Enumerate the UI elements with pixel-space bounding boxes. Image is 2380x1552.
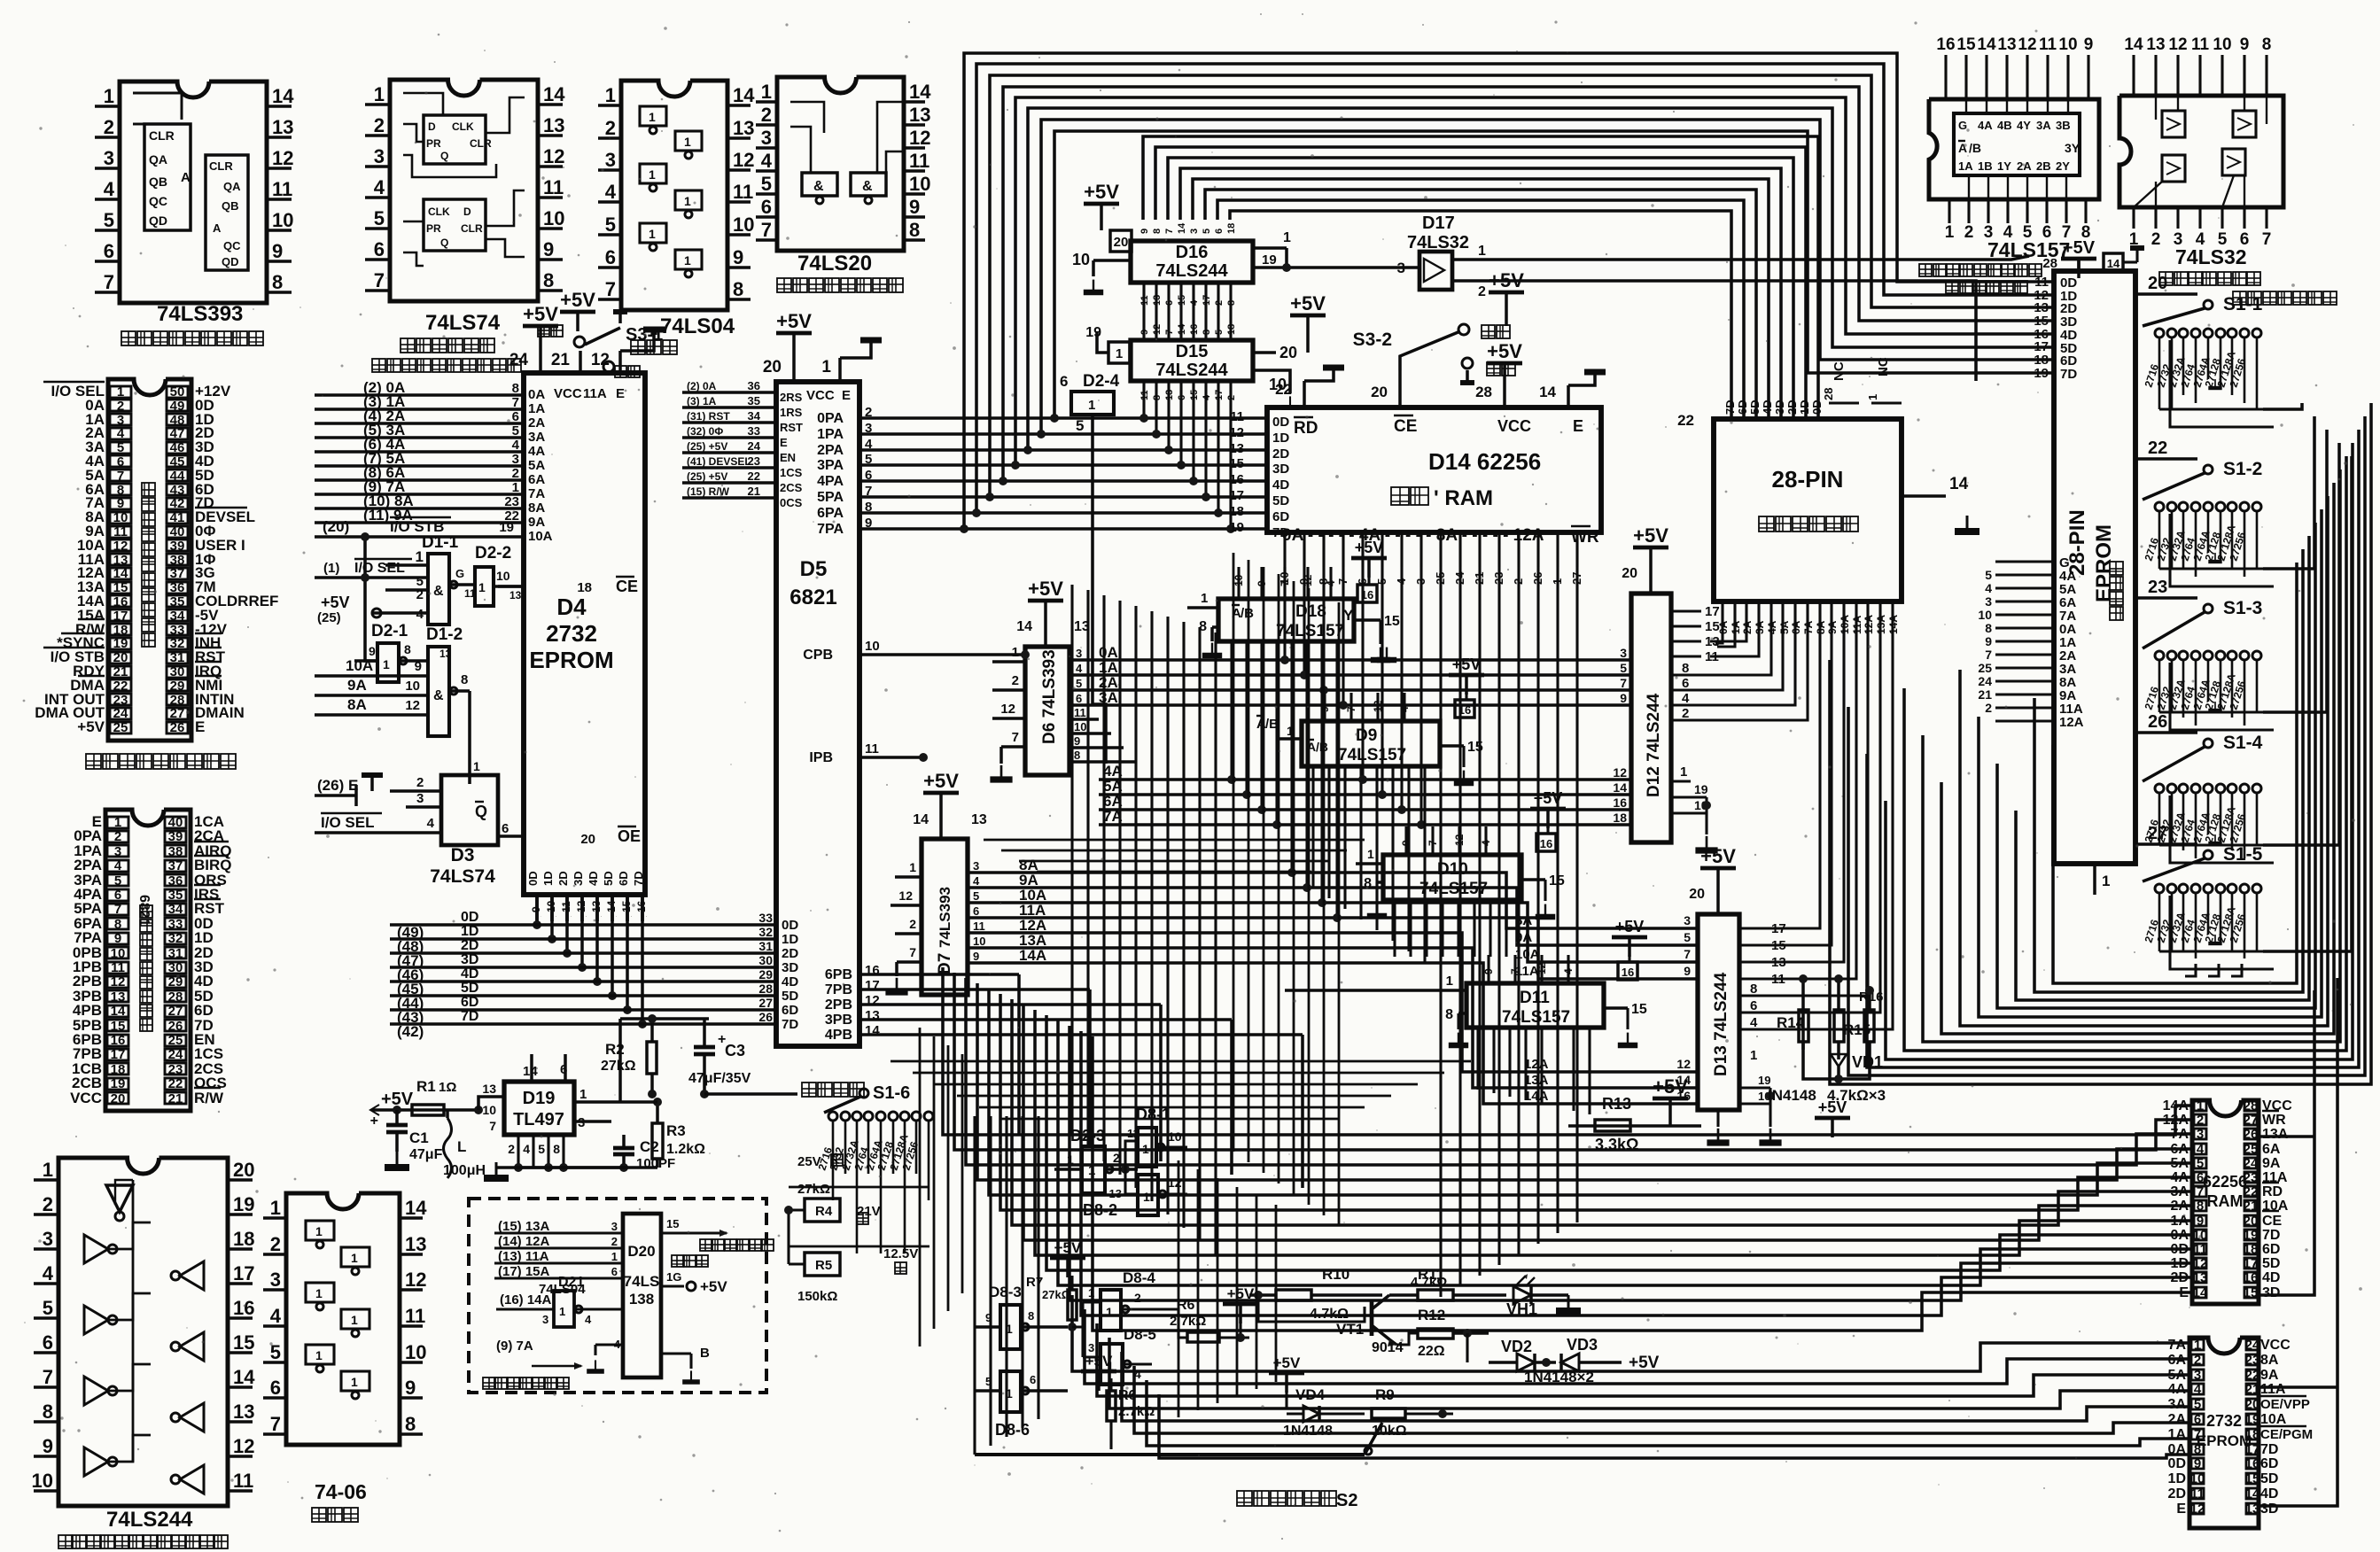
svg-text:100μH: 100μH xyxy=(443,1163,486,1178)
svg-text:24: 24 xyxy=(168,1047,183,1062)
svg-text:11: 11 xyxy=(1074,706,1086,719)
svg-text:8: 8 xyxy=(2262,35,2272,54)
D5 pin20 VCC +5V xyxy=(792,353,796,382)
svg-text:4: 4 xyxy=(761,150,773,172)
svg-text:14: 14 xyxy=(1177,323,1187,335)
wire CPB to D6 pin1 xyxy=(1021,650,1030,659)
svg-text:1CS: 1CS xyxy=(780,466,803,479)
svg-text:4D: 4D xyxy=(1272,477,1289,493)
svg-text:1: 1 xyxy=(1750,1048,1757,1063)
IC D7 74LS393 (vertical) xyxy=(922,839,968,995)
svg-text:2: 2 xyxy=(909,917,916,931)
svg-text:12: 12 xyxy=(1000,702,1015,717)
svg-text:5: 5 xyxy=(512,423,519,438)
resistor R6 2.7k vertical xyxy=(1081,1370,1116,1374)
svg-text:6PB: 6PB xyxy=(825,967,852,982)
svg-text:S1-3: S1-3 xyxy=(2223,598,2262,618)
svg-text:2732: 2732 xyxy=(2206,1412,2242,1430)
vertical drops from D14 bottom pins xyxy=(1283,567,1286,660)
svg-text:19: 19 xyxy=(1694,782,1708,796)
svg-text:9: 9 xyxy=(1620,691,1627,705)
programming socket address pins xyxy=(1995,560,2054,563)
svg-text:Q: Q xyxy=(440,237,448,249)
svg-text:35: 35 xyxy=(748,394,760,407)
svg-text:9: 9 xyxy=(114,931,121,946)
emulation socket bottom address pins 0A-14A xyxy=(1721,601,1723,631)
svg-text:18: 18 xyxy=(2244,1242,2259,1257)
IC D13 74LS244 (vertical) xyxy=(1698,914,1739,1110)
connector J2 6821 PIA (40-pin) xyxy=(105,810,191,1111)
svg-text:12: 12 xyxy=(2193,1256,2208,1271)
svg-text:1: 1 xyxy=(684,135,691,149)
svg-text:R7: R7 xyxy=(1026,1275,1043,1290)
S1-6 collector rails xyxy=(789,1186,929,1189)
svg-text:9A: 9A xyxy=(2260,1368,2279,1383)
svg-text:(2) 0A: (2) 0A xyxy=(687,380,717,392)
wire D17.1 right with arrow xyxy=(1489,256,2029,260)
svg-text:1: 1 xyxy=(1088,1163,1095,1178)
svg-text:8: 8 xyxy=(405,1413,416,1435)
svg-text:0D: 0D xyxy=(526,871,540,886)
svg-text:10: 10 xyxy=(2058,35,2077,54)
IC D5 6821 PIA (box) xyxy=(776,382,859,1046)
svg-text:2D: 2D xyxy=(461,938,478,953)
svg-text:+5V: +5V xyxy=(1085,1353,1113,1370)
svg-text:6: 6 xyxy=(502,821,509,836)
svg-text:8: 8 xyxy=(1028,1309,1034,1323)
staircase 8A-11A to D13 left xyxy=(1152,873,1698,928)
svg-text:23: 23 xyxy=(504,494,519,509)
svg-text:33: 33 xyxy=(758,911,773,925)
svg-text:6: 6 xyxy=(1164,300,1175,306)
svg-text:11: 11 xyxy=(2193,1242,2207,1257)
svg-text:13: 13 xyxy=(543,114,564,136)
row (20) I/O STB pin 19 10A xyxy=(315,535,524,539)
D11 bottom pins xyxy=(1476,1028,1479,1057)
svg-text:13A: 13A xyxy=(1524,1073,1549,1088)
svg-text:10: 10 xyxy=(1074,720,1086,733)
svg-text:74LS244: 74LS244 xyxy=(1155,361,1228,380)
svg-text:2: 2 xyxy=(43,1193,53,1215)
svg-text:138: 138 xyxy=(629,1291,654,1308)
staircase D18 bottom to 4A-7A rows xyxy=(1099,670,1232,780)
svg-text:16: 16 xyxy=(1613,795,1627,810)
svg-text:20: 20 xyxy=(2244,1214,2259,1229)
svg-text:(9) 7A: (9) 7A xyxy=(496,1339,533,1354)
svg-text:4: 4 xyxy=(1189,299,1200,306)
svg-text:18: 18 xyxy=(1226,223,1237,234)
caption: only slot 7 has this signal xyxy=(86,754,236,769)
svg-text:4: 4 xyxy=(416,607,424,622)
svg-text:24: 24 xyxy=(2244,1156,2259,1171)
svg-text:12: 12 xyxy=(1229,425,1244,440)
svg-text:8: 8 xyxy=(1152,395,1163,400)
svg-text:7D: 7D xyxy=(2260,1442,2278,1457)
svg-text:D6 74LS393: D6 74LS393 xyxy=(1040,649,1059,744)
svg-text:6D: 6D xyxy=(2262,1242,2280,1257)
svg-text:74LS32: 74LS32 xyxy=(2175,245,2247,268)
svg-text:6D: 6D xyxy=(461,995,478,1010)
svg-text:2D: 2D xyxy=(2168,1486,2186,1502)
svg-text:16: 16 xyxy=(1229,472,1244,487)
svg-text:E: E xyxy=(1573,417,1583,435)
switch S1-2 EPROM select xyxy=(2135,457,2197,461)
svg-text:10: 10 xyxy=(543,207,564,229)
svg-text:11: 11 xyxy=(272,178,292,200)
svg-text:+5V: +5V xyxy=(1084,181,1119,203)
svg-text:5: 5 xyxy=(1684,930,1691,944)
D11 top pins xyxy=(1487,955,1489,983)
svg-text:E: E xyxy=(2176,1502,2186,1517)
svg-text:1N4148×2: 1N4148×2 xyxy=(1524,1369,1594,1385)
svg-text:(3) 1A: (3) 1A xyxy=(687,395,717,407)
svg-text:1: 1 xyxy=(1116,346,1123,361)
svg-text:3: 3 xyxy=(104,147,114,169)
svg-text:(16) 14A: (16) 14A xyxy=(500,1292,552,1308)
S1 group bus lines below xyxy=(2158,338,2161,409)
svg-text:29: 29 xyxy=(168,974,183,989)
svg-text:12: 12 xyxy=(111,974,126,989)
svg-text:12A: 12A xyxy=(2059,715,2084,730)
svg-text:3D: 3D xyxy=(1773,400,1786,415)
svg-text:7PA: 7PA xyxy=(817,522,844,537)
svg-text:24: 24 xyxy=(113,706,128,721)
svg-text:2.7kΩ: 2.7kΩ xyxy=(1170,1314,1206,1329)
bus group1: D5 PA bus to programming-socket data loop (8 lines) xyxy=(964,53,2054,529)
svg-text:12: 12 xyxy=(591,351,610,369)
svg-text:G: G xyxy=(455,567,464,580)
svg-text:45: 45 xyxy=(170,454,185,469)
svg-text:13: 13 xyxy=(971,812,987,827)
svg-text:7: 7 xyxy=(104,271,114,293)
wire IPB to D7 xyxy=(922,757,924,877)
svg-text:2D: 2D xyxy=(782,946,798,961)
svg-text:4: 4 xyxy=(973,874,980,888)
svg-text:15: 15 xyxy=(2244,1285,2259,1300)
svg-text:19: 19 xyxy=(499,520,514,535)
svg-text:35: 35 xyxy=(168,888,183,903)
svg-text:11A: 11A xyxy=(583,386,607,401)
svg-text:5D: 5D xyxy=(1272,493,1289,508)
left drop from D5 0D rows to bottom bundle xyxy=(859,924,1046,926)
svg-text:13: 13 xyxy=(405,1233,426,1255)
D4 pin 24 VCC +5V xyxy=(539,345,542,373)
svg-text:4D: 4D xyxy=(461,966,478,982)
svg-text:11: 11 xyxy=(1139,390,1150,400)
svg-text:11: 11 xyxy=(733,181,753,203)
svg-text:9A: 9A xyxy=(347,677,367,694)
emulation plug socket 28-PIN (box) xyxy=(1714,419,1902,601)
svg-text:29: 29 xyxy=(170,679,185,694)
D18 bottom pins xyxy=(1230,641,1233,670)
svg-text:1: 1 xyxy=(579,1087,587,1102)
svg-text:2: 2 xyxy=(2194,1353,2201,1368)
svg-text:19: 19 xyxy=(233,1193,254,1215)
svg-text:Y: Y xyxy=(1343,607,1354,624)
svg-text:6821: 6821 xyxy=(789,586,836,609)
svg-text:/B: /B xyxy=(1241,606,1254,621)
svg-text:VD3: VD3 xyxy=(1567,1336,1598,1354)
svg-text:14: 14 xyxy=(233,1366,255,1388)
svg-text:9: 9 xyxy=(973,950,979,963)
svg-text:30: 30 xyxy=(168,960,183,975)
bundle bottom-left elbows verticals xyxy=(942,1102,944,1104)
svg-text:(42): (42) xyxy=(397,1023,424,1040)
svg-text:QA: QA xyxy=(149,152,167,167)
svg-text:5: 5 xyxy=(2194,1397,2201,1412)
D10 top pins xyxy=(1404,826,1407,855)
svg-text:3: 3 xyxy=(114,844,121,859)
svg-text:31: 31 xyxy=(170,650,185,665)
svg-text:D8-5: D8-5 xyxy=(1124,1326,1156,1343)
horizontal collector rows mid-lower xyxy=(868,1067,1506,1068)
svg-text:NC: NC xyxy=(1832,361,1847,381)
switch S1-1 EPROM select xyxy=(2135,292,2197,296)
svg-text:1: 1 xyxy=(649,167,656,182)
EPROM programming socket 28-PIN tall box xyxy=(2054,271,2135,864)
svg-text:15: 15 xyxy=(1771,938,1786,953)
svg-text:2: 2 xyxy=(605,117,616,139)
svg-text:E: E xyxy=(842,388,851,403)
svg-text:17: 17 xyxy=(1214,390,1225,400)
svg-text:10: 10 xyxy=(482,1103,496,1117)
resistor R3 1.2k xyxy=(652,1123,663,1159)
svg-text:1D: 1D xyxy=(541,871,555,886)
D16 pin1 and pin19 right xyxy=(1253,246,1287,250)
svg-text:D7: D7 xyxy=(936,953,954,974)
svg-text:74LS393: 74LS393 xyxy=(937,887,953,948)
svg-text:9A: 9A xyxy=(2262,1156,2281,1171)
D13 right pins xyxy=(1739,927,1768,929)
svg-text:2: 2 xyxy=(117,399,124,414)
svg-text:34: 34 xyxy=(168,902,183,917)
svg-text:2D: 2D xyxy=(556,871,570,886)
svg-text:9: 9 xyxy=(43,1435,53,1457)
svg-text:74LS74: 74LS74 xyxy=(425,311,501,335)
svg-text:4: 4 xyxy=(1134,1367,1141,1381)
svg-text:15: 15 xyxy=(113,580,128,595)
svg-text:1: 1 xyxy=(351,1251,358,1265)
staircase bundle D14 bottom to D18/D9 tops xyxy=(1284,566,1286,568)
svg-text:14: 14 xyxy=(733,84,755,106)
svg-text:14: 14 xyxy=(1613,780,1627,795)
svg-text:25: 25 xyxy=(1978,661,1992,675)
svg-text:EN: EN xyxy=(780,451,796,464)
svg-text:4: 4 xyxy=(512,438,520,453)
svg-text:10: 10 xyxy=(2190,1471,2205,1486)
svg-text:2: 2 xyxy=(374,114,385,136)
svg-text:74LS157: 74LS157 xyxy=(1987,238,2070,261)
svg-text:8: 8 xyxy=(1750,982,1757,997)
svg-text:12A: 12A xyxy=(2163,1113,2189,1128)
svg-text:2: 2 xyxy=(1964,223,1974,242)
svg-text:12: 12 xyxy=(733,149,754,171)
svg-text:2: 2 xyxy=(611,1235,618,1248)
svg-text:9: 9 xyxy=(272,240,283,262)
svg-text:CLK: CLK xyxy=(428,206,450,218)
svg-text:9: 9 xyxy=(1074,734,1080,748)
wire D17.2 right then down xyxy=(1489,281,1958,425)
svg-text:QD: QD xyxy=(222,255,239,268)
svg-text:3: 3 xyxy=(43,1228,53,1250)
wire from C3 node right to S1-6 area xyxy=(704,1092,797,1096)
svg-text:3: 3 xyxy=(512,452,519,467)
svg-text:74LS157: 74LS157 xyxy=(1276,622,1344,640)
svg-text:16: 16 xyxy=(1540,837,1552,850)
R14 R15 R16 + VD1 zener network xyxy=(1801,979,1805,1050)
svg-text:28: 28 xyxy=(1822,388,1835,400)
svg-text:11: 11 xyxy=(560,901,572,912)
svg-text:NC: NC xyxy=(1876,357,1891,376)
svg-text:R15: R15 xyxy=(1843,1021,1871,1038)
IC 74LS393 dual 4-bit counter (top-left demo) xyxy=(120,81,267,303)
svg-text:D1-2: D1-2 xyxy=(426,625,463,644)
svg-text:10A: 10A xyxy=(2260,1412,2287,1427)
svg-text:15: 15 xyxy=(1631,1002,1647,1017)
svg-text:15: 15 xyxy=(1229,456,1244,471)
svg-text:1: 1 xyxy=(761,81,772,103)
svg-text:15: 15 xyxy=(1177,295,1187,306)
svg-text:I/O SEL: I/O SEL xyxy=(354,561,405,576)
svg-text:6A: 6A xyxy=(2171,1142,2189,1157)
svg-text:E: E xyxy=(616,386,625,401)
IC 74LS74 dual D flip-flop (demo) xyxy=(390,80,538,301)
svg-text:7A: 7A xyxy=(2171,1127,2189,1142)
svg-text:16: 16 xyxy=(113,594,128,609)
svg-text:1D: 1D xyxy=(461,924,478,939)
svg-text:1: 1 xyxy=(2194,1338,2201,1353)
svg-text:VT1: VT1 xyxy=(1336,1321,1364,1338)
svg-text:3B: 3B xyxy=(2056,119,2071,132)
svg-text:22: 22 xyxy=(168,1076,183,1091)
D19 bottom pins 2 4 5 8 xyxy=(517,1135,519,1168)
svg-text:13: 13 xyxy=(2146,35,2165,54)
svg-text:15: 15 xyxy=(1384,614,1400,629)
svg-text:2D: 2D xyxy=(1785,400,1799,415)
svg-text:3: 3 xyxy=(1684,913,1691,927)
svg-text:14A: 14A xyxy=(2163,1098,2189,1114)
svg-text:44: 44 xyxy=(170,469,185,484)
svg-text:7: 7 xyxy=(909,945,916,959)
svg-text:+5V: +5V xyxy=(1629,1354,1660,1372)
svg-text:D21: D21 xyxy=(558,1275,584,1290)
svg-text:22: 22 xyxy=(2245,1368,2260,1383)
svg-text:C3: C3 xyxy=(725,1042,745,1059)
svg-text:12: 12 xyxy=(543,145,564,167)
svg-text:21: 21 xyxy=(748,485,760,498)
svg-text:5: 5 xyxy=(2197,1156,2204,1171)
svg-text:62256: 62256 xyxy=(2203,1173,2247,1191)
svg-text:5: 5 xyxy=(973,889,979,903)
svg-text:1: 1 xyxy=(315,1348,323,1362)
svg-text:15: 15 xyxy=(1705,619,1720,634)
svg-text:32: 32 xyxy=(758,925,773,939)
svg-text:6: 6 xyxy=(512,409,519,424)
decoder D20 74LS138 (dashed box) xyxy=(469,1199,766,1393)
svg-text:13: 13 xyxy=(111,989,126,1005)
svg-text:E: E xyxy=(780,436,788,449)
svg-text:3D: 3D xyxy=(572,871,585,886)
svg-text:11: 11 xyxy=(909,150,929,172)
svg-text:4: 4 xyxy=(1202,394,1212,400)
svg-text:0A: 0A xyxy=(528,387,545,402)
wire D16.19 to D17.3 xyxy=(1287,266,1419,269)
svg-text:A: A xyxy=(213,221,222,235)
svg-text:74LS74: 74LS74 xyxy=(430,866,495,887)
svg-text:1: 1 xyxy=(649,227,656,241)
svg-text:4: 4 xyxy=(605,181,617,203)
svg-text:21: 21 xyxy=(551,351,571,369)
svg-text:6: 6 xyxy=(43,1331,53,1354)
IC D11 74LS157 xyxy=(1466,983,1604,1028)
svg-text:1: 1 xyxy=(104,85,114,107)
svg-text:B: B xyxy=(700,1346,710,1361)
wire from D3 top pin 1 up xyxy=(469,774,471,776)
svg-text:D8-4: D8-4 xyxy=(1123,1269,1155,1286)
svg-text:0A: 0A xyxy=(2168,1442,2187,1457)
svg-text:QC: QC xyxy=(149,194,167,208)
svg-text:6D: 6D xyxy=(1272,509,1289,524)
svg-text:7: 7 xyxy=(374,269,385,291)
svg-text:D2-4: D2-4 xyxy=(1083,372,1120,391)
svg-text:19: 19 xyxy=(111,1076,126,1091)
svg-text:7A: 7A xyxy=(2168,1338,2187,1353)
svg-text:19: 19 xyxy=(1758,1074,1770,1087)
svg-text:27: 27 xyxy=(170,706,185,721)
svg-text:3: 3 xyxy=(1189,229,1200,234)
svg-text:&: & xyxy=(433,688,444,703)
svg-text:10: 10 xyxy=(496,569,510,583)
svg-text:2D: 2D xyxy=(2171,1270,2189,1285)
svg-text:19: 19 xyxy=(2245,1412,2260,1427)
svg-text:3: 3 xyxy=(2197,1127,2204,1142)
svg-text:1: 1 xyxy=(1143,1190,1150,1204)
svg-text:7PB: 7PB xyxy=(825,982,852,997)
bottom bus from center to 62256 RAM rows (11 lines) xyxy=(943,967,2192,1135)
svg-text:7A: 7A xyxy=(528,486,545,501)
D5 CPB pin 10 row xyxy=(859,653,1025,656)
svg-text:13: 13 xyxy=(1164,390,1175,400)
svg-text:8: 8 xyxy=(1074,749,1080,762)
svg-text:5A: 5A xyxy=(2168,1368,2187,1383)
connector J1 Apple-II slot (50-pin) xyxy=(108,379,191,741)
gate D1-1 NAND xyxy=(428,554,449,625)
D9 top pins xyxy=(1323,693,1326,721)
svg-text:7D: 7D xyxy=(2262,1228,2280,1243)
svg-text:30: 30 xyxy=(758,953,773,967)
svg-text:7: 7 xyxy=(2262,230,2272,249)
svg-text:6: 6 xyxy=(104,240,114,262)
svg-text:(26) E: (26) E xyxy=(317,777,358,794)
svg-text:14: 14 xyxy=(405,1197,427,1219)
svg-text:/B: /B xyxy=(1969,141,1981,155)
svg-text:10: 10 xyxy=(1168,1129,1182,1144)
pin stubs below D15 to D14 data bus xyxy=(1142,381,1145,418)
svg-text:5: 5 xyxy=(43,1297,53,1319)
svg-text:D3: D3 xyxy=(451,845,475,865)
svg-text:R14: R14 xyxy=(1777,1014,1805,1031)
svg-text:12: 12 xyxy=(909,127,930,149)
svg-text:8: 8 xyxy=(553,1142,560,1156)
svg-text:16: 16 xyxy=(233,1297,254,1319)
svg-text:2: 2 xyxy=(2197,1113,2204,1128)
svg-text:15: 15 xyxy=(620,900,633,912)
svg-text:20: 20 xyxy=(233,1159,254,1181)
svg-text:7: 7 xyxy=(43,1366,53,1388)
svg-text:7D: 7D xyxy=(1272,525,1289,540)
svg-text:1: 1 xyxy=(649,110,656,124)
svg-text:1D: 1D xyxy=(1798,400,1811,415)
